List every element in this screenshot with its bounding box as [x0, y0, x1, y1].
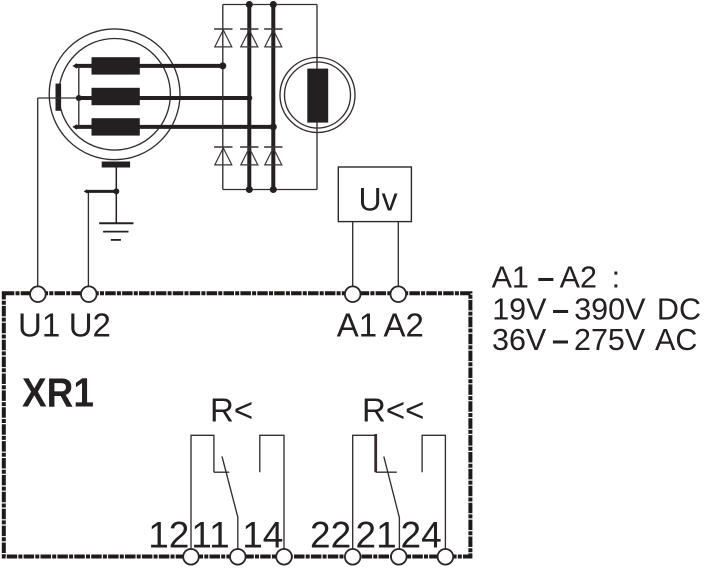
svg-text:11: 11: [191, 515, 229, 556]
svg-text:XR1: XR1: [22, 369, 94, 415]
svg-text:A1: A1: [337, 307, 377, 344]
svg-text:A2: A2: [384, 307, 424, 344]
svg-text:R<<: R<<: [362, 392, 424, 429]
svg-text:21: 21: [356, 515, 397, 556]
svg-text:36V – 275V AC: 36V – 275V AC: [492, 323, 697, 357]
svg-text:U2: U2: [69, 307, 111, 344]
svg-text:19V – 390V DC: 19V – 390V DC: [492, 293, 701, 327]
svg-text:R<: R<: [210, 392, 253, 429]
svg-text:U1: U1: [18, 307, 60, 344]
svg-text:14: 14: [242, 515, 283, 556]
svg-text:22: 22: [310, 515, 351, 556]
svg-text:Uv: Uv: [359, 181, 398, 217]
svg-text:A1 – A2 :: A1 – A2 :: [492, 260, 621, 294]
svg-text:12: 12: [148, 515, 189, 556]
svg-text:24: 24: [401, 515, 442, 556]
